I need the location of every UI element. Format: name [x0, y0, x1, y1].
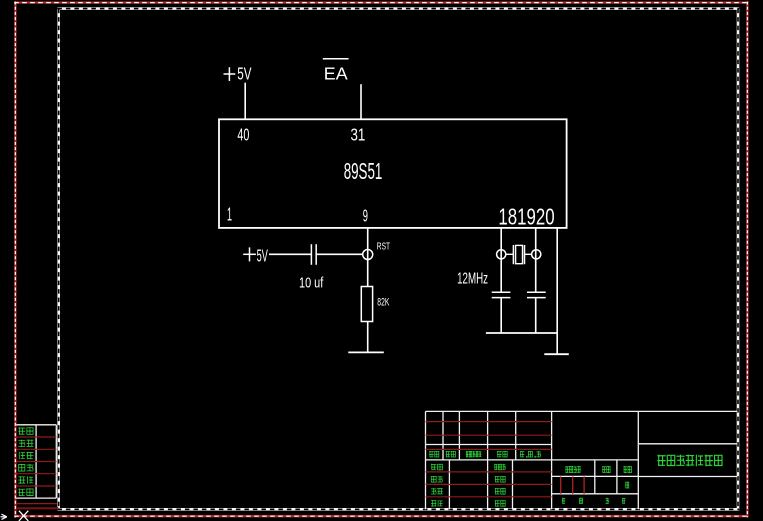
revision row header labels	[429, 451, 541, 458]
svg-text:EA: EA	[324, 63, 348, 83]
wire pin 18 to crystal node	[500, 228, 502, 292]
svg-text:5V: 5V	[257, 245, 268, 265]
ground bus for C2 C3	[486, 332, 557, 334]
screen edge arrow marker	[1, 514, 7, 519]
svg-text:1: 1	[227, 204, 232, 225]
svg-text:RST: RST	[377, 241, 391, 253]
svg-text:82K: 82K	[377, 297, 390, 309]
wire +5V to pin 40	[244, 83, 246, 120]
wire EA to pin 31	[360, 84, 362, 119]
wire C1 to RST node	[316, 253, 363, 255]
svg-text:12MHz: 12MHz	[457, 270, 488, 287]
svg-text:9: 9	[363, 206, 368, 226]
binding margin row labels	[18, 427, 33, 496]
crystal Y1 12MHz	[506, 245, 532, 264]
svg-text:40: 40	[237, 124, 249, 144]
wire R1 to ground	[367, 322, 369, 353]
title block red rule lines	[426, 422, 585, 497]
power +5V (reset branch)	[243, 245, 268, 265]
svg-text:181920: 181920	[498, 203, 554, 229]
binding margin signature table	[16, 425, 58, 509]
ground (pin 20)	[544, 353, 569, 355]
node RST (junction circle)	[363, 250, 373, 260]
stage mark / weight / scale labels	[565, 466, 631, 488]
power +5V (to pin 40)	[224, 63, 252, 83]
IC U1 89S51	[219, 119, 567, 228]
UCS icon cross	[19, 511, 28, 521]
wire C3 to ground bus	[535, 298, 537, 333]
wire pin 20 to ground	[556, 228, 558, 354]
capacitor C3 plates	[527, 292, 546, 297]
wire +5V to capacitor C1	[269, 253, 311, 255]
svg-text:89S51: 89S51	[344, 158, 383, 184]
wire pin 19 to crystal node	[535, 228, 537, 292]
title block grid	[426, 411, 738, 509]
ground (reset branch)	[348, 351, 384, 353]
sheet count labels	[562, 498, 625, 504]
capacitor C2 plates	[492, 292, 511, 297]
svg-text:10 uf: 10 uf	[299, 276, 323, 292]
node XTAL2 (circle)	[497, 250, 506, 259]
svg-text:5V: 5V	[237, 63, 252, 83]
node XTAL1 (circle)	[532, 250, 541, 259]
signature column labels (design/draw/check/process)	[431, 464, 443, 507]
second column labels (standardization/review/approve/date)	[494, 464, 505, 507]
wire C2 to ground bus	[500, 298, 502, 333]
wire pin 9 to RST node	[367, 228, 369, 287]
resistor R1 82K	[361, 287, 372, 322]
drawing title text (system main control circuit diagram)	[657, 455, 722, 467]
capacitor C1 plates	[311, 244, 316, 265]
net label /EA	[323, 59, 349, 84]
svg-text:31: 31	[351, 124, 366, 144]
